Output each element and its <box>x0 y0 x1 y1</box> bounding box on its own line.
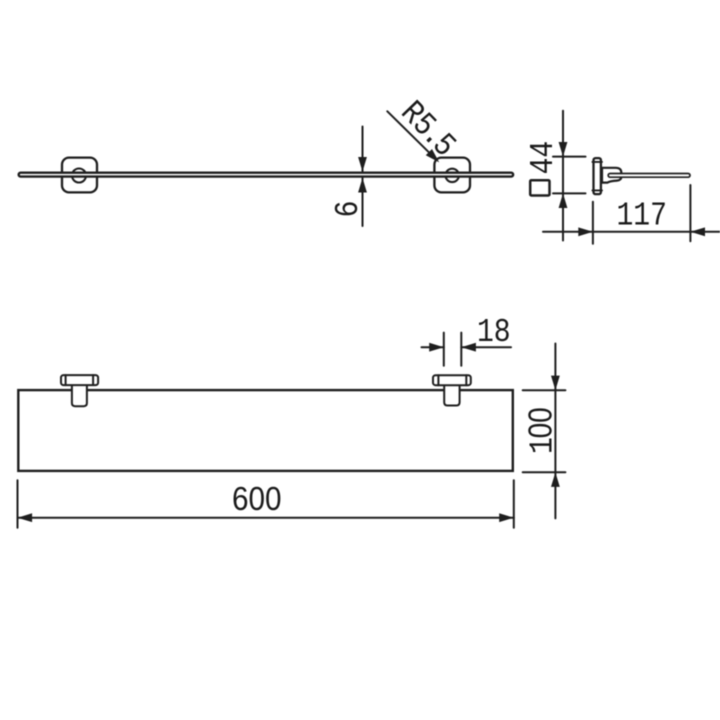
plan view: left cap inner line 1 <box>65 375 67 385</box>
plan view: right mount cap <box>433 375 471 385</box>
plan view: right mount stem <box>444 385 459 405</box>
svg-text:600: 600 <box>232 480 282 517</box>
svg-text:R5.5: R5.5 <box>392 95 462 165</box>
dim 6: upper arrowhead <box>358 157 367 172</box>
dim 100: bottom extension tick <box>523 471 566 473</box>
dim 18: left extension line <box>443 333 445 366</box>
svg-text:117: 117 <box>616 199 666 236</box>
dim 18: right arrowhead <box>461 343 476 352</box>
front view: left bracket screw circle <box>72 169 86 183</box>
dim 117: right extension line <box>689 185 691 241</box>
dim 117: left extension line <box>592 202 594 244</box>
plan view: left mount stem <box>72 385 87 406</box>
dim 18: left arrowhead <box>429 343 444 352</box>
dim 600: left arrowhead <box>18 513 33 522</box>
dim 100: upper arrowhead <box>551 376 560 391</box>
plan view: left cap inner line 2 <box>92 375 94 385</box>
svg-text:44: 44 <box>526 141 563 175</box>
dim 44: top extension tick <box>553 156 586 158</box>
front view: glass shelf plate (thin bar) <box>19 173 513 177</box>
dim 600: right extension line <box>513 480 515 528</box>
dim 117: dimension line <box>543 231 720 233</box>
dim 117: right arrowhead <box>690 227 705 236</box>
dim 600: left extension line <box>17 480 19 528</box>
dim 117: left arrowhead <box>578 227 593 236</box>
side view: wall plate bottom cap line <box>592 189 602 191</box>
dim 600: right arrowhead <box>499 513 514 522</box>
dim 44: vertical dimension line <box>562 111 564 241</box>
dim 100: top extension tick <box>523 389 566 391</box>
plan view: shelf outline rectangle <box>18 390 513 471</box>
side view: glass shelf edge (thin bar) <box>608 174 690 178</box>
dim 44: lower arrowhead <box>559 193 568 208</box>
dim R5.5: leader line <box>387 111 436 160</box>
front view: right bracket screw circle <box>446 169 459 182</box>
front view: left mounting bracket square <box>62 158 97 193</box>
front view: right mounting bracket square <box>434 158 470 193</box>
svg-text:6: 6 <box>331 200 368 217</box>
dim 44: upper arrowhead <box>559 142 568 157</box>
side view: wall plate top cap line <box>592 161 602 163</box>
dim 18: right dimension line segment <box>461 346 511 348</box>
dim 100: lower arrowhead <box>551 472 560 487</box>
side view: wall plate <box>594 158 601 194</box>
dim 600: dimension line <box>18 517 514 519</box>
side view: bracket body <box>602 168 621 183</box>
dim 100: vertical dimension line <box>554 344 556 519</box>
dim 6: lower arrowhead <box>358 178 367 193</box>
svg-text:100: 100 <box>522 407 562 454</box>
plan view: left mount cap <box>61 375 98 385</box>
dim 6: lower extension line <box>362 178 364 226</box>
dim 6: upper extension line <box>362 127 364 172</box>
dim 18: left dimension line segment <box>422 346 444 348</box>
dim R5.5: leader arrowhead <box>426 149 443 166</box>
svg-text:18: 18 <box>477 315 511 352</box>
plan view: right cap inner line 2 <box>465 375 467 385</box>
plan view: right cap inner line 1 <box>437 375 439 385</box>
dim 44: square symbol <box>530 180 549 195</box>
dim 44: bottom extension tick <box>553 192 586 194</box>
dim 18: right extension line <box>460 333 462 366</box>
